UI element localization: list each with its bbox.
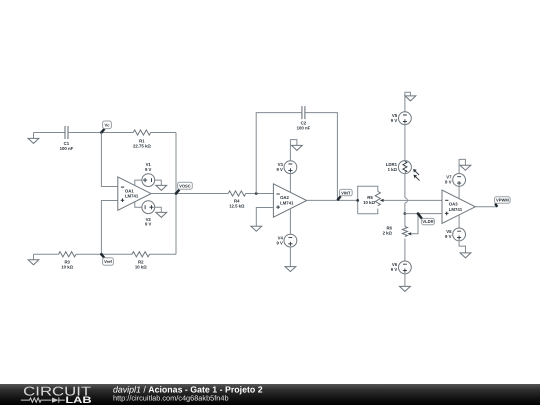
ground for V7 — [459, 159, 471, 173]
svg-text:http://circuitlab.com/c4g68akb: http://circuitlab.com/c4g68akb5fn4b — [113, 394, 229, 403]
ground below V6 — [400, 274, 411, 292]
svg-text:9 V: 9 V — [145, 167, 152, 172]
wire V2 to OA1 V- pin — [135, 202, 142, 207]
wire OA2 V- pin to V4 — [289, 209, 291, 235]
source V6 — [399, 261, 412, 274]
potentiometer R5 wiper arrow — [380, 199, 442, 202]
op-amp OA2 — [273, 184, 306, 217]
svg-text:9 V: 9 V — [445, 234, 452, 239]
svg-text:10 kΩ: 10 kΩ — [61, 265, 73, 270]
junction VLDR node — [404, 212, 407, 215]
rheostat R6 body — [402, 227, 407, 237]
rheostat R6 wiper arrow — [408, 214, 419, 236]
svg-text:LM741: LM741 — [125, 194, 139, 199]
wire — [175, 133, 177, 255]
svg-text:LAB: LAB — [65, 394, 91, 405]
svg-text:100 nF: 100 nF — [297, 125, 311, 130]
wire R5 loop bottom — [358, 209, 378, 214]
svg-text:9 V: 9 V — [276, 240, 283, 245]
ground for OA2 + input — [251, 226, 262, 231]
svg-text:100 nF: 100 nF — [60, 146, 74, 151]
junction R6 wiper node — [417, 212, 420, 215]
svg-text:9 V: 9 V — [391, 118, 398, 123]
svg-text:VINT: VINT — [341, 190, 351, 195]
svg-text:2 kΩ: 2 kΩ — [383, 231, 393, 236]
net flag Vc — [101, 121, 111, 133]
svg-text:LM741: LM741 — [449, 207, 463, 212]
wire — [404, 125, 406, 161]
svg-text:LM741: LM741 — [280, 201, 294, 206]
svg-text:Vref: Vref — [104, 259, 112, 264]
op-amp OA3 — [442, 190, 475, 223]
svg-text:9 V: 9 V — [445, 180, 452, 185]
wire OA1 output — [151, 193, 228, 195]
wire — [151, 132, 176, 134]
capacitor C2 — [302, 106, 305, 119]
ground — [28, 133, 39, 144]
ground for V3 — [290, 140, 302, 161]
wire V1 to OA1 V+ pin — [135, 180, 142, 185]
ground top for V5 — [405, 92, 416, 112]
wire hop over — [405, 198, 408, 203]
potentiometer R5 body — [375, 191, 380, 205]
junction OA1 output node — [175, 192, 178, 195]
wire OA3 output — [475, 206, 497, 208]
svg-text:22.75 kΩ: 22.75 kΩ — [133, 144, 151, 149]
svg-text:VPWM: VPWM — [496, 198, 509, 203]
junction R5 node — [356, 199, 359, 202]
wire OA3 V+ pin to V7 — [458, 186, 460, 198]
svg-text:9 V: 9 V — [276, 167, 283, 172]
wire to OA3 non-inverting input — [405, 213, 442, 215]
svg-text:10 kΩ: 10 kΩ — [363, 200, 375, 205]
svg-text:10 kΩ: 10 kΩ — [135, 265, 147, 270]
svg-text:OA1: OA1 — [125, 188, 134, 193]
wire — [150, 253, 177, 255]
node Vref junction — [100, 253, 103, 256]
ground for V1 — [155, 180, 167, 190]
svg-text:VOSC: VOSC — [179, 183, 191, 188]
wire to OA1 inverting input — [101, 133, 117, 187]
wire OA2 non-inverting input to ground — [256, 208, 273, 227]
wire R5 loop top — [358, 186, 378, 214]
svg-text:1 kΩ: 1 kΩ — [388, 167, 398, 172]
junction feedback node — [255, 192, 258, 195]
wire feedback to C2 — [256, 113, 302, 194]
svg-text:OA2: OA2 — [280, 195, 289, 200]
source V4 — [284, 234, 297, 247]
resistor R1 — [133, 130, 151, 135]
net flag VPWM — [495, 197, 511, 207]
ground for V4 — [285, 247, 296, 272]
resistor R2 — [132, 252, 150, 257]
wire OA3 V- pin to V8 — [458, 215, 460, 228]
net flag VLDR — [418, 214, 434, 225]
source V7 — [453, 174, 466, 187]
source V5 — [399, 112, 412, 125]
net flag Vref — [101, 254, 113, 265]
svg-text:OA3: OA3 — [449, 202, 458, 207]
source V8 — [453, 228, 466, 241]
wire — [68, 132, 133, 134]
wire — [76, 253, 132, 255]
ground bottom left — [28, 254, 39, 264]
net flag VINT — [337, 189, 352, 200]
photoresistor LDR1 — [398, 161, 419, 181]
svg-text:9 V: 9 V — [145, 222, 152, 227]
svg-text:VLDR: VLDR — [422, 219, 433, 224]
wire — [404, 239, 406, 262]
ground for V8 — [459, 241, 471, 258]
wire — [404, 203, 406, 214]
resistor R3 — [59, 252, 77, 257]
source V1 — [142, 174, 155, 187]
wire C2 to OA2 output — [305, 113, 338, 201]
source V3 — [284, 161, 297, 174]
node Vc junction — [100, 131, 103, 134]
wire — [34, 253, 59, 255]
capacitor C1 — [65, 126, 68, 139]
wire OA1 non-inverting input to Vref — [101, 201, 117, 255]
svg-text:Vc: Vc — [104, 123, 110, 128]
wire — [34, 132, 66, 134]
op-amp OA1 — [118, 177, 151, 210]
CircuitLab logo circuit squiggle with resistor and diode — [21, 397, 65, 402]
svg-text:12.5 kΩ: 12.5 kΩ — [229, 203, 245, 208]
ground for V2 — [155, 207, 167, 217]
wire OA2 output — [307, 199, 358, 201]
svg-text:9 V: 9 V — [391, 267, 398, 272]
source V2 — [142, 201, 155, 214]
wire OA2 V+ pin to V3 — [289, 174, 291, 193]
wire — [246, 193, 274, 195]
net flag VOSC — [176, 182, 192, 193]
wire — [404, 214, 406, 227]
wire — [404, 174, 406, 198]
resistor R4 — [228, 191, 246, 196]
